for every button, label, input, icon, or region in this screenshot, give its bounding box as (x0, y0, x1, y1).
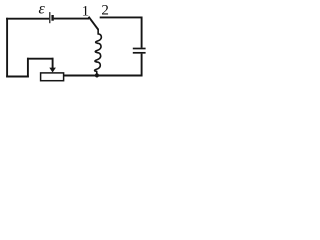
wire step horizontal to arrow (27, 58, 54, 60)
svg-text:2: 2 (101, 3, 109, 19)
wire step vertical up (27, 58, 29, 78)
switch blade from contact 1 down to pivot (89, 17, 99, 30)
wire left vertical side (6, 18, 8, 78)
svg-text:ε: ε (39, 1, 46, 18)
wire from battery to switch contact 1 (54, 18, 89, 20)
battery short thick plate (51, 15, 53, 21)
capacitor C: bottom plate (133, 52, 146, 54)
wire bottom rail from resistor to capacitor (64, 75, 143, 77)
wire wiper vertical down to arrowhead (52, 58, 54, 69)
wire capacitor lower lead (141, 54, 143, 77)
wire top-left rail from left corner to battery (6, 18, 49, 20)
arrowhead of rheostat wiper (49, 68, 56, 73)
wire right vertical down to capacitor (141, 17, 143, 48)
wire contact 2 rail to right corner (100, 16, 143, 18)
junction node dot at coil bottom (95, 73, 99, 77)
resistor R (rheostat) box (41, 73, 64, 81)
wire bottom-left segment (6, 76, 29, 78)
capacitor C: top plate (133, 48, 146, 50)
svg-text:1: 1 (82, 3, 90, 19)
inductor L: top lead, 4 loops, bottom lead (95, 29, 102, 76)
battery EMF source: long thin plate (49, 12, 51, 23)
